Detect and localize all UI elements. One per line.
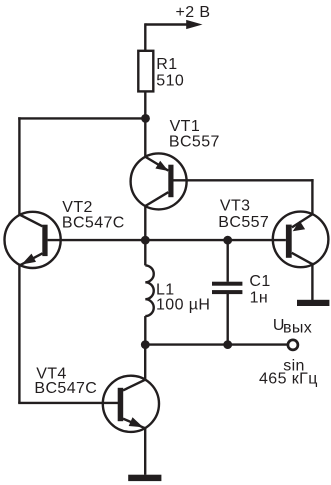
svg-text:вых: вых xyxy=(283,319,312,336)
svg-text:R1: R1 xyxy=(156,56,177,73)
svg-text:VT2: VT2 xyxy=(62,199,93,216)
svg-text:BC547C: BC547C xyxy=(62,214,125,231)
svg-text:1н: 1н xyxy=(250,289,269,306)
svg-text:BC557: BC557 xyxy=(218,214,269,231)
svg-text:510: 510 xyxy=(156,73,184,90)
svg-text:100 µH: 100 µH xyxy=(156,296,210,313)
svg-text:VT3: VT3 xyxy=(220,198,251,215)
svg-text:+2 В: +2 В xyxy=(176,4,211,21)
svg-text:BC547C: BC547C xyxy=(34,380,97,397)
svg-text:C1: C1 xyxy=(249,273,270,290)
svg-text:BC557: BC557 xyxy=(169,134,220,151)
svg-text:465 кГц: 465 кГц xyxy=(259,370,318,387)
